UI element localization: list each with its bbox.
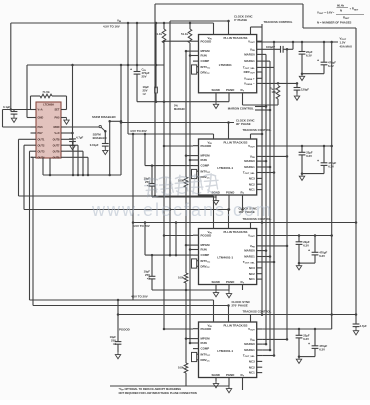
svg-text:+: +	[130, 68, 132, 72]
svg-text:OUT1: OUT1	[38, 137, 45, 141]
svg-text:4.5V TO 20V: 4.5V TO 20V	[131, 295, 148, 299]
svg-text:NC3: NC3	[249, 360, 255, 364]
svg-text:51.1k: 51.1k	[181, 32, 188, 36]
svg-text:120µF: 120µF	[301, 87, 309, 91]
svg-text:V+A: V+A	[38, 108, 43, 112]
svg-text:4.5V TO 20V: 4.5V TO 20V	[133, 224, 150, 228]
svg-text:NC3: NC3	[249, 266, 255, 270]
svg-text:OUT3: OUT3	[38, 149, 45, 153]
svg-text:PH5: PH5	[54, 116, 60, 120]
svg-text:100k: 100k	[178, 366, 184, 370]
svg-text:MPGM: MPGM	[201, 243, 211, 247]
svg-text:MARG1: MARG1	[244, 59, 255, 63]
svg-text:270° PHASE: 270° PHASE	[232, 304, 248, 308]
svg-text:NC3: NC3	[249, 177, 255, 181]
svg-text:TRACK/SS CONTROL: TRACK/SS CONTROL	[243, 128, 272, 132]
svg-text:PLLIN TRACK/SS: PLLIN TRACK/SS	[224, 323, 248, 327]
svg-text:LTM4601: LTM4601	[219, 63, 232, 67]
svg-text:OUT6: OUT6	[53, 149, 60, 153]
svg-text:RUN: RUN	[201, 341, 207, 345]
svg-text:4.7µF: 4.7µF	[76, 135, 83, 139]
svg-text:NC2: NC2	[249, 365, 255, 369]
svg-text:6.3V: 6.3V	[306, 154, 312, 158]
svg-text:90° PHASE: 90° PHASE	[236, 122, 251, 126]
svg-text:6.3V: 6.3V	[303, 337, 309, 341]
svg-text:MARG0: MARG0	[244, 342, 255, 346]
svg-text:OUT5: OUT5	[53, 155, 60, 159]
svg-text:PGOOD: PGOOD	[201, 327, 212, 331]
svg-text:0.1µF: 0.1µF	[3, 105, 10, 109]
svg-text:4.5V TO 20V: 4.5V TO 20V	[130, 129, 147, 133]
svg-text:MARG0: MARG0	[244, 53, 255, 57]
svg-text:OUT4: OUT4	[38, 155, 45, 159]
svg-text:PGND: PGND	[226, 373, 234, 377]
svg-text:NC1: NC1	[249, 371, 255, 375]
svg-text:6.3V: 6.3V	[319, 254, 325, 258]
svg-text:MARG1: MARG1	[244, 348, 255, 352]
svg-text:MPGM: MPGM	[201, 154, 211, 158]
svg-text:45A MAX: 45A MAX	[340, 44, 352, 48]
svg-text:MARG1: MARG1	[244, 255, 255, 259]
svg-text:RUN: RUN	[201, 158, 207, 162]
svg-text:COMP: COMP	[201, 253, 210, 257]
svg-text:OUT2: OUT2	[38, 143, 45, 147]
svg-text:6.3V: 6.3V	[306, 53, 312, 57]
svg-text:6.3V: 6.3V	[328, 165, 334, 169]
svg-text:MARG0: MARG0	[244, 159, 255, 163]
svg-text:25V: 25V	[142, 74, 147, 78]
svg-text:0° PHASE: 0° PHASE	[234, 18, 247, 22]
svg-text:6.3V: 6.3V	[319, 348, 325, 352]
svg-text:MARGIN CONTROL: MARGIN CONTROL	[228, 106, 254, 110]
svg-text:+: +	[308, 342, 310, 346]
svg-text:GND: GND	[38, 116, 44, 120]
svg-text:N: N	[340, 9, 342, 13]
svg-text:SET: SET	[54, 108, 59, 112]
svg-text:MPGM: MPGM	[201, 49, 211, 53]
svg-text:LTM4601-1: LTM4601-1	[217, 349, 233, 353]
svg-text:MPGM: MPGM	[201, 337, 211, 341]
svg-text:+: +	[317, 58, 319, 62]
svg-text:PH7: PH7	[38, 131, 44, 135]
svg-text:COMP: COMP	[201, 347, 210, 351]
svg-text:6.3V: 6.3V	[303, 244, 309, 248]
svg-text:60.4k: 60.4k	[337, 4, 344, 8]
svg-text:SGND: SGND	[212, 280, 220, 284]
svg-text:NC1: NC1	[249, 188, 255, 192]
svg-text:51.1k: 51.1k	[155, 32, 162, 36]
svg-text:MARG1: MARG1	[244, 165, 255, 169]
svg-text:TRACK/SS CONTROL: TRACK/SS CONTROL	[264, 20, 293, 24]
svg-text:MOD: MOD	[53, 125, 59, 129]
svg-text:TRACK/SS CONTROL: TRACK/SS CONTROL	[243, 310, 272, 314]
svg-text:71.5k: 71.5k	[42, 90, 50, 94]
svg-text:6.3V: 6.3V	[328, 64, 334, 68]
svg-text:+: +	[308, 249, 310, 253]
svg-text:PH6: PH6	[38, 125, 44, 129]
svg-text:SGND: SGND	[212, 373, 220, 377]
svg-text:V+D: V+D	[54, 131, 59, 135]
svg-text:4.7µF: 4.7µF	[360, 324, 367, 328]
svg-text:+: +	[317, 159, 319, 163]
svg-text:×2: ×2	[113, 342, 117, 346]
svg-text:PGOOD: PGOOD	[119, 328, 130, 332]
svg-text:4.5V TO 16V: 4.5V TO 16V	[103, 24, 120, 28]
svg-text:NC2: NC2	[249, 272, 255, 276]
svg-text:PGOOD: PGOOD	[201, 233, 212, 237]
svg-text:LTC6909: LTC6909	[43, 103, 54, 107]
svg-text:RUN: RUN	[201, 248, 207, 252]
svg-text:COMP: COMP	[201, 164, 210, 168]
svg-text:MARG0: MARG0	[244, 249, 255, 253]
svg-text:NOT REQUIRED FOR LOW INDUCTANC: NOT REQUIRED FOR LOW INDUCTANCE PLANE CO…	[119, 391, 197, 395]
svg-text:*CFF OPTIONAL TO REDUCE ABRUPT: *CFF OPTIONAL TO REDUCE ABRUPT MARGINING	[119, 387, 182, 392]
svg-text:×2: ×2	[143, 92, 147, 96]
svg-text:COMP: COMP	[201, 59, 210, 63]
svg-text:SGND: SGND	[212, 88, 220, 92]
svg-text:NC1: NC1	[249, 277, 255, 281]
svg-text:PGOOD: PGOOD	[201, 144, 212, 148]
svg-text:ENABLED: ENABLED	[93, 136, 107, 140]
svg-text:PLLIN TRACK/SS: PLLIN TRACK/SS	[224, 230, 248, 234]
svg-text:PGND: PGND	[226, 280, 234, 284]
svg-text:PLLIN TRACK/SS: PLLIN TRACK/SS	[224, 36, 248, 40]
svg-text:PGND: PGND	[226, 190, 234, 194]
svg-text:RUN: RUN	[201, 54, 207, 58]
svg-text:100k: 100k	[178, 276, 184, 280]
svg-text:LTM4601-1: LTM4601-1	[217, 166, 233, 170]
svg-text:OUT7: OUT7	[53, 143, 60, 147]
svg-text:MARGIN: MARGIN	[174, 107, 185, 111]
svg-text:PGOOD: PGOOD	[201, 39, 212, 43]
svg-text:SSFM DISABLED: SSFM DISABLED	[92, 115, 116, 119]
svg-text:LTM4601-1: LTM4601-1	[217, 256, 233, 260]
svg-text:0.01µF: 0.01µF	[90, 143, 99, 147]
svg-text:PLLIN TRACK/SS: PLLIN TRACK/SS	[224, 140, 248, 144]
svg-text:NC2: NC2	[249, 182, 255, 186]
svg-text:www.elecfans.com: www.elecfans.com	[91, 200, 273, 220]
svg-text:N = NUMBER OF PHASES: N = NUMBER OF PHASES	[317, 20, 352, 24]
svg-text:PGND: PGND	[226, 88, 234, 92]
svg-text:×2: ×2	[147, 276, 151, 280]
svg-text:OUT8: OUT8	[53, 137, 60, 141]
svg-text:10k: 10k	[271, 90, 276, 94]
